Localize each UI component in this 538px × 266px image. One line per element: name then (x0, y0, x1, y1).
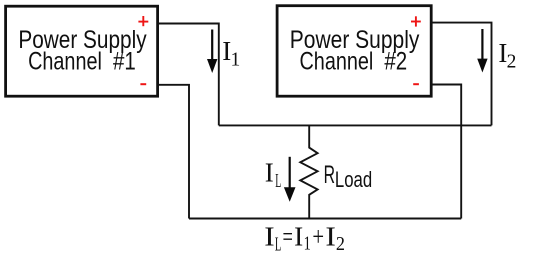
svg-text:Channel: Channel (300, 48, 374, 76)
svg-text:1: 1 (231, 50, 241, 71)
svg-text:2: 2 (507, 52, 517, 73)
current arrow I1 (207, 30, 217, 74)
current arrow IL (284, 157, 296, 202)
minus terminal of U1 (140, 83, 146, 85)
resistor R_Load (300, 125, 317, 218)
bottom bus wire (189, 218, 461, 220)
svg-text:I: I (325, 221, 336, 251)
svg-text:=: = (283, 221, 293, 251)
svg-text:L: L (275, 235, 281, 256)
wire from U2 minus to bottom bus (432, 85, 462, 219)
minus terminal of U2 (413, 83, 419, 85)
wire from U1 plus to node A (159, 24, 219, 126)
svg-text:R: R (324, 161, 335, 189)
wire from U2 plus to node B (432, 23, 492, 126)
equation IL = I1 + I2 (264, 221, 345, 255)
wire from U1 minus to bottom bus (159, 85, 189, 219)
plus terminal of U1 (138, 16, 148, 26)
svg-text:I: I (264, 221, 274, 251)
svg-text:I: I (265, 158, 274, 188)
svg-text:2: 2 (336, 234, 345, 255)
power supply box U2 (277, 6, 431, 97)
svg-text:Load: Load (335, 167, 372, 192)
svg-text:1: 1 (304, 234, 311, 255)
current arrow I2 (477, 29, 487, 73)
wire node A to node B (top bus) (219, 124, 492, 126)
plus terminal of U2 (411, 16, 421, 26)
svg-text:Channel: Channel (28, 48, 102, 76)
svg-text:#2: #2 (384, 48, 407, 76)
svg-text:I: I (294, 221, 303, 251)
power supply box U1 (6, 6, 158, 96)
svg-text:L: L (275, 171, 281, 192)
svg-text:+: + (312, 221, 324, 251)
svg-text:#1: #1 (113, 48, 136, 76)
